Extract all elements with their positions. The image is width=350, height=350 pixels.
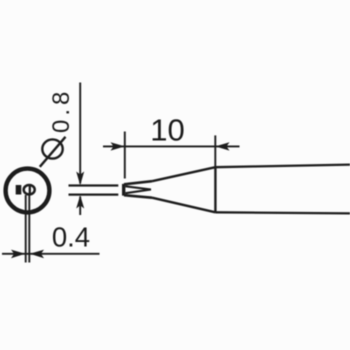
node A: chisel end face, head-on (left filled block): [16, 185, 22, 195]
svg-text:0.8: 0.8: [48, 88, 75, 133]
svg-text:10: 10: [150, 113, 184, 148]
node: 0.4 right arrowhead: [30, 250, 44, 259]
wire: 10 dimension line: [103, 145, 240, 147]
node: 10 left arrowhead (points right): [111, 142, 125, 150]
wire: cylinder bottom edge: [215, 212, 350, 213]
wire: phi0.8 leader vertical line (lower): [79, 197, 81, 216]
node: 10 right arrowhead (points left): [215, 142, 229, 150]
wire: cone top edge: [152, 167, 215, 181]
wire: tip top edge: [124, 181, 152, 184]
wire: phi0.8 extension line top: [69, 184, 119, 186]
wire: front-view circle (tip sleeve, head-on): [6, 169, 50, 213]
wire: chisel flat upper line: [126, 186, 152, 189]
wire: 10 dimension left extension line: [124, 132, 126, 179]
wire: cylinder top edge: [215, 165, 350, 168]
wire: 0.4 dimension line: [2, 253, 100, 255]
wire: 10 dimension right extension line: [214, 135, 216, 167]
node: phi0.8 up arrowhead: [76, 195, 84, 208]
node: 0.4 left arrowhead: [11, 250, 25, 259]
node: phi0.8 down arrowhead: [76, 172, 84, 186]
wire: cone bottom edge: [152, 198, 215, 213]
value label phi symbol (drawn): [42, 139, 62, 158]
node: tip end face (side view): [122, 184, 125, 196]
wire: 0.4 extension line right: [28, 195, 30, 263]
wire: phi0.8 extension line bottom: [69, 193, 119, 195]
node B: chisel end face, head-on (small ellipse with centre bar): [24, 185, 35, 194]
wire: 0.4 extension line left: [25, 195, 27, 263]
wire: phi0.8 leader vertical line (upper): [79, 83, 81, 184]
wire: cone-cylinder junction: [214, 167, 216, 213]
wire: chisel flat lower line: [126, 190, 152, 194]
svg-text:0.4: 0.4: [52, 221, 90, 252]
wire: tip bottom edge: [124, 195, 152, 198]
